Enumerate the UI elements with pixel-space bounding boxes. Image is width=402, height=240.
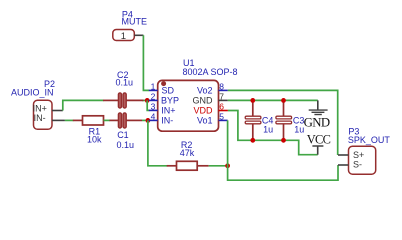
pin 6 stub [219,110,228,112]
svg-text:47k: 47k [180,148,195,158]
capacitor C2 [103,93,144,108]
wire pin7 GND rail [228,99,318,101]
wire IN- to R1 [65,119,74,121]
svg-text:SD: SD [162,85,175,95]
svg-text:AUDIO_IN: AUDIO_IN [11,88,54,98]
svg-text:4: 4 [151,111,156,121]
svg-text:2: 2 [151,91,156,101]
wire R2 to pin5 drop [209,165,228,167]
svg-text:Vo1: Vo1 [197,115,213,125]
svg-text:MUTE: MUTE [122,17,148,27]
svg-text:VDD: VDD [193,105,213,115]
resistor R1 [73,116,105,125]
svg-text:1: 1 [151,81,156,91]
wire IN+ riser to row2 [63,100,104,110]
wire C1 to pin4 junction [142,119,148,121]
pin 3 stub [149,109,158,111]
capacitor C4 [245,100,261,140]
svg-text:IN+: IN+ [161,105,175,115]
pin 1 stub [149,89,158,91]
svg-text:3: 3 [151,101,156,111]
junction at R2 right [225,163,230,168]
resistor R2 [167,161,209,170]
connector P2 (AUDIO_IN) [33,100,65,129]
junction C3 top [281,98,286,103]
svg-text:0.1u: 0.1u [117,140,135,150]
svg-text:S-: S- [353,160,362,170]
junction C4 bottom [250,138,255,143]
wire jog junction to pin3 [147,100,149,110]
connector P3 (SPK_OUT) [338,146,376,174]
wire pin6 VDD rail [228,111,318,155]
svg-text:VCC: VCC [307,133,331,147]
svg-text:IN-: IN- [161,115,173,125]
wire junction down to R2 [148,120,168,165]
pin 2 stub [149,99,158,101]
op-amp U1 (8002A) body [158,80,219,131]
svg-text:Vo2: Vo2 [197,85,213,95]
wire R1 to C1 [104,119,111,121]
svg-text:GND: GND [193,95,214,105]
power symbol VCC [312,146,323,155]
svg-text:IN+: IN+ [33,103,47,113]
pin 4 stub [149,119,158,121]
pin 5 stub [219,119,228,121]
capacitor C3 [276,100,292,140]
svg-text:C1: C1 [117,130,129,140]
svg-text:SPK_OUT: SPK_OUT [348,135,391,145]
capacitor C1 [110,113,143,128]
svg-text:GND: GND [304,115,330,129]
junction C4 top [250,98,255,103]
svg-text:7: 7 [219,92,224,102]
svg-text:1: 1 [121,31,126,42]
svg-text:8: 8 [219,82,224,92]
junction at pin4 [146,118,151,123]
wire MUTE to pin1 [143,35,149,90]
pin 8 stub [219,89,228,91]
pin 7 stub [219,99,228,101]
ground symbol [309,100,328,114]
svg-text:0.1u: 0.1u [116,77,134,87]
svg-text:1u: 1u [263,124,273,134]
svg-text:8002A SOP-8: 8002A SOP-8 [183,67,238,77]
svg-text:IN-: IN- [34,113,46,123]
connector P4 (MUTE) [113,30,144,43]
junction C3 bottom [281,138,286,143]
svg-text:10k: 10k [87,134,102,144]
wire row2 C2 output to junction [142,99,148,101]
wire pin5 drop to bottom run [228,120,338,180]
svg-text:BYP: BYP [161,95,179,105]
junction at pin2 [145,98,150,103]
svg-text:5: 5 [219,112,224,122]
wire pin8 to P3 S+ [228,90,338,155]
svg-text:6: 6 [219,102,224,112]
